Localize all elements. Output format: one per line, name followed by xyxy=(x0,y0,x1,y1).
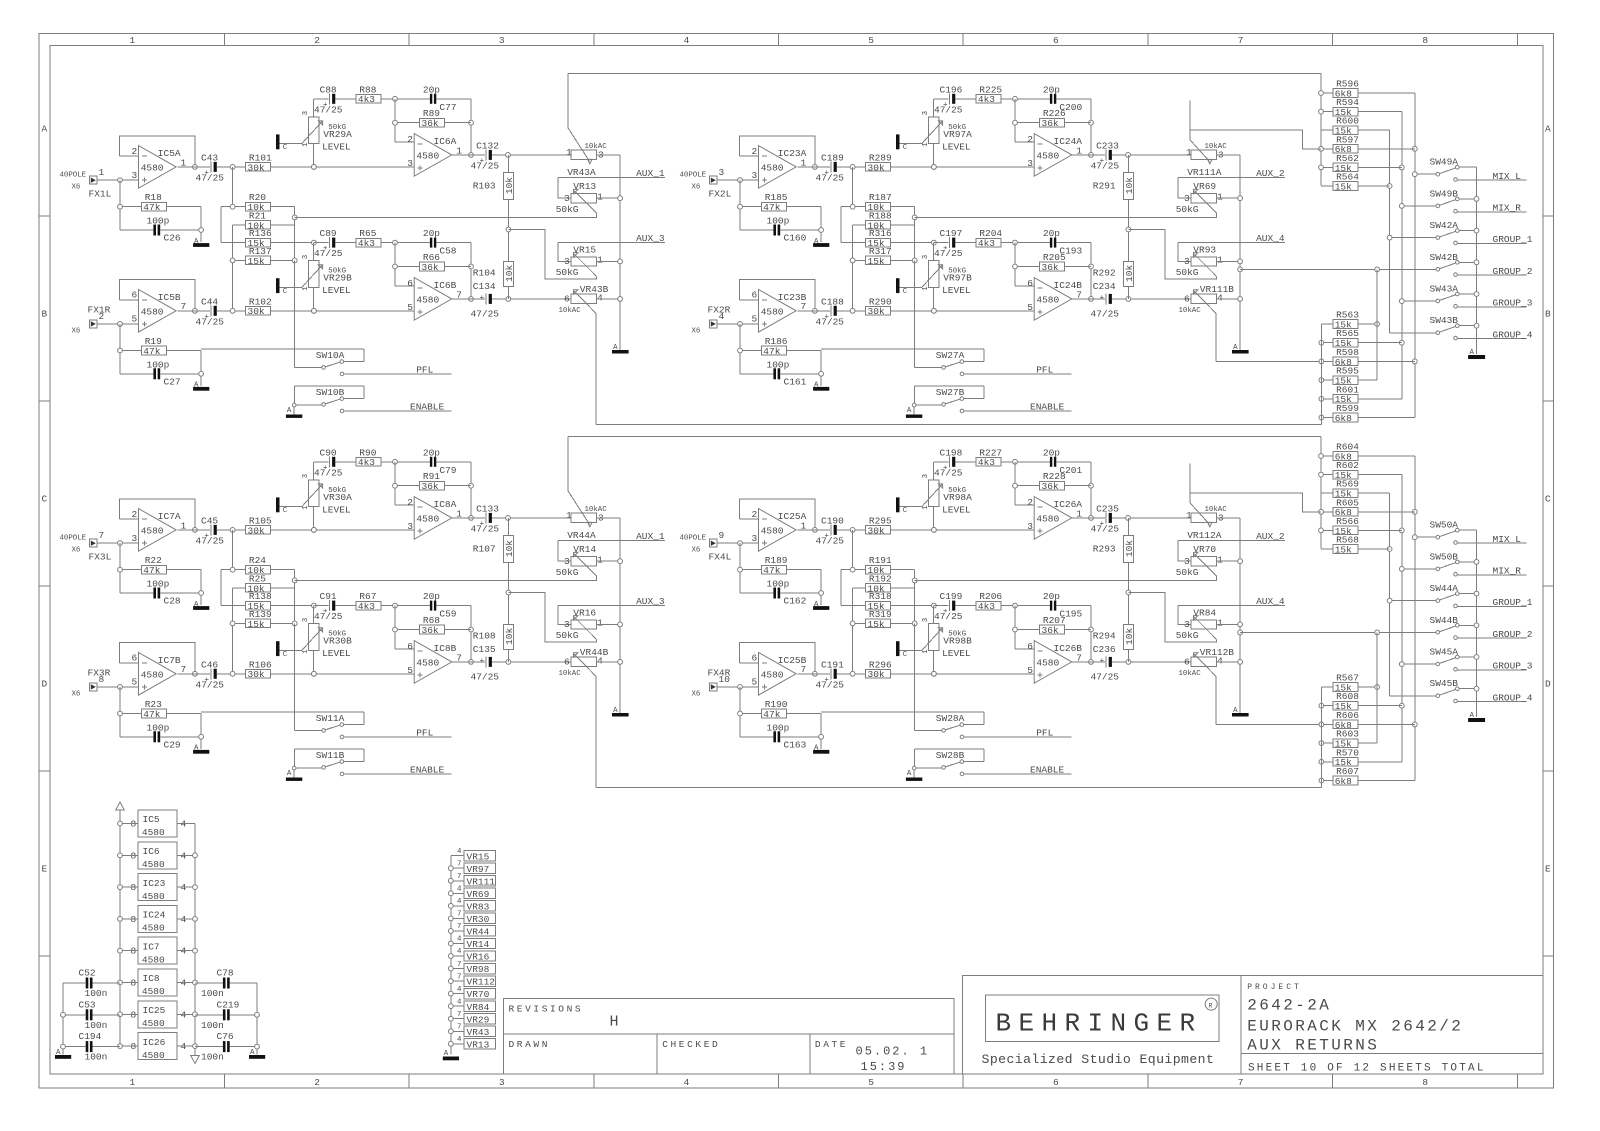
node xyxy=(1089,516,1094,521)
node xyxy=(118,980,123,985)
svg-text:5: 5 xyxy=(752,677,758,688)
node xyxy=(292,215,297,220)
switch SW50B xyxy=(1430,551,1477,570)
svg-text:C: C xyxy=(283,144,288,152)
svg-text:20p: 20p xyxy=(423,591,440,602)
wire xyxy=(200,351,202,386)
wire xyxy=(507,287,509,299)
svg-text:47/25: 47/25 xyxy=(314,248,343,259)
pot supply pin VR112 xyxy=(451,973,496,987)
svg-text:1: 1 xyxy=(922,286,930,291)
wire xyxy=(63,1046,86,1048)
svg-text:IC6A: IC6A xyxy=(434,136,457,147)
svg-text:4: 4 xyxy=(597,292,603,303)
node xyxy=(1238,622,1243,627)
svg-text:C196: C196 xyxy=(940,84,963,95)
wire xyxy=(1072,298,1105,300)
potentiometer VR98B xyxy=(922,618,972,659)
wire aux return tap xyxy=(915,216,1217,218)
wire xyxy=(1358,417,1415,419)
wire xyxy=(233,259,246,261)
svg-text:CHECKED: CHECKED xyxy=(662,1039,720,1050)
node xyxy=(292,578,297,583)
wire xyxy=(1217,260,1241,262)
svg-text:7: 7 xyxy=(457,923,461,931)
op-amp IC26A xyxy=(1027,497,1082,540)
wire mix bus 2 xyxy=(1401,475,1403,762)
wire xyxy=(217,310,246,312)
svg-text:4: 4 xyxy=(457,898,462,906)
svg-text:47/25: 47/25 xyxy=(816,316,845,327)
potentiometer VR97B xyxy=(922,255,972,296)
net label AUX_3 xyxy=(558,596,665,607)
svg-text:10kAC: 10kAC xyxy=(585,506,608,514)
svg-text:+: + xyxy=(480,657,485,665)
svg-text:C: C xyxy=(903,288,908,296)
svg-text:10kAC: 10kAC xyxy=(1179,670,1202,678)
node xyxy=(1319,146,1324,151)
wire xyxy=(280,649,302,651)
svg-text:6: 6 xyxy=(132,290,138,301)
net label AUX_2 xyxy=(1178,168,1285,179)
op-amp IC23B xyxy=(752,290,807,333)
wire xyxy=(492,154,571,156)
svg-text:7: 7 xyxy=(1238,1077,1244,1088)
node xyxy=(932,671,937,676)
resistor R103 xyxy=(473,173,515,200)
wire xyxy=(336,242,357,244)
wire xyxy=(933,650,935,673)
net label AUX_4 xyxy=(1178,596,1285,607)
node xyxy=(506,153,511,158)
svg-text:36k: 36k xyxy=(422,118,439,129)
svg-text:3: 3 xyxy=(407,158,413,169)
svg-text:Specialized Studio Equipment: Specialized Studio Equipment xyxy=(982,1052,1215,1067)
resistor R189 xyxy=(762,555,788,576)
node xyxy=(393,627,398,632)
wire xyxy=(233,224,246,226)
wire xyxy=(837,310,866,312)
svg-text:C91: C91 xyxy=(320,591,337,602)
svg-text:4: 4 xyxy=(457,998,462,1006)
pot supply pin VR83 xyxy=(451,898,496,912)
wire feedback loop IC5A xyxy=(120,136,195,167)
wire xyxy=(313,650,315,673)
svg-text:15:39: 15:39 xyxy=(861,1060,907,1074)
svg-text:D: D xyxy=(1545,679,1551,690)
resistor R296 xyxy=(866,659,892,680)
wire xyxy=(1402,663,1438,665)
node xyxy=(1474,323,1479,328)
wire xyxy=(1014,606,1016,649)
wire xyxy=(1358,148,1415,150)
wire xyxy=(1321,323,1333,325)
svg-text:6: 6 xyxy=(564,293,570,304)
svg-text:3: 3 xyxy=(922,255,930,259)
wire xyxy=(1127,650,1129,662)
svg-text:100n: 100n xyxy=(85,988,108,999)
node xyxy=(1387,235,1392,240)
svg-text:C190: C190 xyxy=(821,515,844,526)
ground xyxy=(1232,707,1249,716)
pot supply pin VR111 xyxy=(451,873,496,887)
svg-text:A: A xyxy=(1545,124,1551,135)
svg-text:10k: 10k xyxy=(504,177,515,194)
svg-text:2: 2 xyxy=(407,134,413,145)
svg-text:C198: C198 xyxy=(940,447,963,458)
capacitor C193 xyxy=(1043,228,1083,257)
svg-text:VR111A: VR111A xyxy=(1187,167,1222,178)
wire xyxy=(1112,517,1191,519)
ground xyxy=(193,387,209,391)
svg-text:R: R xyxy=(1209,1003,1213,1010)
wire bus to mix resistors xyxy=(568,436,1321,438)
svg-text:D: D xyxy=(42,679,48,690)
wire xyxy=(841,605,866,607)
node xyxy=(1238,267,1243,272)
wire xyxy=(1321,511,1333,513)
resistor R318 xyxy=(866,591,892,612)
svg-text:36k: 36k xyxy=(422,262,439,273)
wire xyxy=(63,982,86,984)
node xyxy=(932,603,937,608)
resistor R188 xyxy=(866,210,892,231)
node xyxy=(448,1041,453,1046)
wire mix bus 3 xyxy=(1389,493,1391,696)
wire xyxy=(956,461,977,463)
capacitor C89 xyxy=(314,228,343,259)
wire xyxy=(271,206,295,208)
svg-text:C163: C163 xyxy=(784,739,807,750)
wire xyxy=(837,529,866,531)
node xyxy=(230,204,235,209)
wire xyxy=(232,530,234,570)
svg-text:4580: 4580 xyxy=(761,163,784,174)
svg-text:47/25: 47/25 xyxy=(471,308,500,319)
svg-text:8: 8 xyxy=(99,674,105,685)
wire xyxy=(596,423,1321,425)
svg-text:4580: 4580 xyxy=(141,307,164,318)
wire xyxy=(62,983,64,1055)
svg-text:4580: 4580 xyxy=(142,859,165,870)
capacitor C52 xyxy=(79,968,108,1000)
svg-text:4: 4 xyxy=(457,886,462,894)
resistor R319 xyxy=(866,609,892,630)
wire xyxy=(781,229,822,231)
wire xyxy=(507,650,509,662)
wire xyxy=(445,485,471,487)
wire xyxy=(336,461,357,463)
svg-text:SW11B: SW11B xyxy=(316,750,345,761)
svg-text:4580: 4580 xyxy=(142,986,165,997)
svg-text:4580: 4580 xyxy=(1036,151,1059,162)
svg-text:4580: 4580 xyxy=(416,151,439,162)
svg-text:C45: C45 xyxy=(201,515,218,526)
wire xyxy=(221,206,246,208)
svg-text:47/25: 47/25 xyxy=(934,467,963,478)
svg-text:20p: 20p xyxy=(1043,84,1060,95)
svg-text:X6: X6 xyxy=(72,184,81,192)
wire xyxy=(1190,130,1321,149)
svg-text:47/25: 47/25 xyxy=(1091,160,1120,171)
resistor R138 xyxy=(246,591,272,612)
node xyxy=(312,528,317,533)
connector X6 pin 9 xyxy=(680,530,732,562)
resistor R225 xyxy=(976,84,1002,105)
svg-text:4580: 4580 xyxy=(141,670,164,681)
capacitor C188 xyxy=(816,296,845,327)
svg-text:5: 5 xyxy=(132,314,138,325)
node xyxy=(1013,240,1018,245)
node xyxy=(1412,359,1417,364)
resistor R227 xyxy=(976,447,1002,468)
wire xyxy=(1358,323,1377,325)
svg-text:6: 6 xyxy=(407,641,413,652)
wire xyxy=(120,736,153,738)
node xyxy=(506,516,511,521)
svg-text:E: E xyxy=(1545,864,1551,875)
ground xyxy=(813,750,829,754)
wire xyxy=(280,143,302,145)
svg-text:C219: C219 xyxy=(217,999,240,1010)
svg-text:47k: 47k xyxy=(143,346,160,357)
ground xyxy=(612,707,629,716)
svg-text:C76: C76 xyxy=(217,1031,234,1042)
svg-text:3: 3 xyxy=(302,111,310,115)
capacitor C135 xyxy=(471,644,500,683)
wire input A xyxy=(717,179,759,181)
node xyxy=(1126,297,1131,302)
wire ladder bus xyxy=(294,623,296,730)
wire xyxy=(1072,661,1105,663)
svg-text:REVISIONS: REVISIONS xyxy=(509,1004,584,1015)
node xyxy=(1013,459,1018,464)
svg-text:100p: 100p xyxy=(767,722,790,733)
power rail V+ xyxy=(116,802,125,1047)
wire xyxy=(313,287,315,310)
wire xyxy=(933,287,935,310)
wire xyxy=(314,98,329,100)
ground xyxy=(193,750,209,754)
ground xyxy=(1232,344,1249,353)
wire xyxy=(739,324,741,374)
node xyxy=(912,258,917,263)
switch common bus xyxy=(1476,167,1478,354)
svg-text:C235: C235 xyxy=(1096,503,1119,514)
wire ENABLE xyxy=(960,401,1071,412)
svg-text:FX2L: FX2L xyxy=(709,189,732,200)
node xyxy=(506,590,511,595)
svg-text:100p: 100p xyxy=(147,359,170,370)
node xyxy=(850,621,855,626)
wire xyxy=(739,543,741,593)
wire xyxy=(891,622,915,624)
wire xyxy=(1358,529,1402,531)
wire xyxy=(1321,548,1333,550)
node xyxy=(448,916,453,921)
connector X6 pin 4 xyxy=(692,305,731,336)
wire xyxy=(1015,629,1040,631)
svg-text:VR112: VR112 xyxy=(467,977,496,988)
resistor R563 xyxy=(1333,310,1359,331)
svg-text:10k: 10k xyxy=(1124,628,1135,645)
svg-text:SW43A: SW43A xyxy=(1430,284,1459,295)
wire xyxy=(786,569,821,571)
svg-text:100p: 100p xyxy=(767,579,790,590)
wire xyxy=(280,286,302,288)
wire xyxy=(119,687,121,737)
node xyxy=(448,954,453,959)
wire xyxy=(597,298,621,300)
wire xyxy=(119,324,121,374)
node xyxy=(1474,560,1479,565)
svg-text:100n: 100n xyxy=(201,1020,224,1031)
node xyxy=(312,240,317,245)
wire xyxy=(956,98,977,100)
switch SW45B xyxy=(1430,678,1477,697)
svg-text:PFL: PFL xyxy=(1036,727,1053,738)
node xyxy=(469,297,474,302)
svg-text:47k: 47k xyxy=(763,346,780,357)
ground C xyxy=(276,278,288,296)
node xyxy=(1089,264,1094,269)
wire xyxy=(221,605,246,607)
wire PFL xyxy=(340,364,451,375)
svg-text:30k: 30k xyxy=(248,525,265,536)
wire input B xyxy=(717,686,759,688)
node xyxy=(312,603,317,608)
node xyxy=(1238,559,1243,564)
resistor R600 xyxy=(1333,116,1359,137)
node xyxy=(1319,703,1324,708)
resistor R22 xyxy=(142,555,167,576)
wire xyxy=(798,166,831,168)
svg-text:6: 6 xyxy=(407,278,413,289)
op-amp IC25B xyxy=(752,653,807,696)
wire PFL xyxy=(960,727,1071,738)
wire xyxy=(221,242,246,244)
node xyxy=(393,264,398,269)
IC power pins IC5 xyxy=(120,810,195,838)
wire xyxy=(178,529,211,531)
resistor R291 xyxy=(1093,173,1135,200)
wire xyxy=(1358,185,1390,187)
wire xyxy=(1015,266,1040,268)
ground C xyxy=(276,641,288,659)
wire xyxy=(470,462,472,518)
IC power pins IC7 xyxy=(120,937,195,965)
resistor R597 xyxy=(1333,134,1359,155)
ground C xyxy=(276,134,288,152)
node xyxy=(118,567,123,572)
svg-text:2: 2 xyxy=(752,146,758,157)
wire xyxy=(119,543,121,593)
switch SW49A xyxy=(1430,157,1477,176)
wire xyxy=(740,736,773,738)
wire xyxy=(837,673,866,675)
capacitor C132 xyxy=(471,140,500,171)
svg-text:GROUP_3: GROUP_3 xyxy=(1493,298,1533,309)
wire xyxy=(1127,200,1129,262)
wire xyxy=(395,266,420,268)
node xyxy=(312,308,317,313)
wire xyxy=(933,243,935,261)
wire xyxy=(891,529,1035,531)
wire xyxy=(891,605,934,607)
wire xyxy=(853,224,866,226)
wire xyxy=(1056,242,1091,244)
node xyxy=(1412,535,1417,540)
wire feedback loop IC25B xyxy=(740,643,815,674)
node xyxy=(193,917,198,922)
svg-text:4: 4 xyxy=(457,948,462,956)
node xyxy=(255,1012,260,1017)
wire xyxy=(313,606,315,624)
resistor R20 xyxy=(246,192,271,213)
svg-text:C: C xyxy=(283,651,288,659)
wire xyxy=(781,373,822,375)
svg-text:3: 3 xyxy=(752,533,758,544)
svg-text:47/25: 47/25 xyxy=(1091,523,1120,534)
switch SW44A xyxy=(1430,583,1477,602)
svg-text:5: 5 xyxy=(752,314,758,325)
svg-text:47/25: 47/25 xyxy=(471,523,500,534)
node xyxy=(312,528,317,533)
wire xyxy=(740,350,762,352)
resistor R289 xyxy=(866,152,892,173)
node xyxy=(1387,598,1392,603)
wire xyxy=(314,242,329,244)
svg-text:C89: C89 xyxy=(320,228,337,239)
wire xyxy=(1402,300,1438,302)
resistor R24 xyxy=(246,555,271,576)
svg-text:X6: X6 xyxy=(72,547,81,555)
wire xyxy=(314,461,329,463)
svg-text:3: 3 xyxy=(564,193,570,204)
svg-text:X6: X6 xyxy=(692,327,701,335)
wire xyxy=(597,260,621,262)
wire xyxy=(1090,243,1092,299)
node input A xyxy=(118,541,123,546)
resistor R567 xyxy=(1333,673,1359,694)
svg-text:3: 3 xyxy=(407,521,413,532)
svg-text:SHEET 10 OF 12 SHEETS TOTAL: SHEET 10 OF 12 SHEETS TOTAL xyxy=(1248,1063,1486,1075)
wire xyxy=(294,213,596,217)
node xyxy=(393,483,398,488)
node xyxy=(1412,509,1417,514)
wire ladder bus xyxy=(914,570,916,624)
wire xyxy=(294,576,596,580)
svg-text:SW28B: SW28B xyxy=(936,750,965,761)
wire xyxy=(1358,511,1415,513)
svg-text:PFL: PFL xyxy=(1036,364,1053,375)
node xyxy=(193,853,198,858)
switch SW11A xyxy=(201,712,364,732)
op-amp IC5B xyxy=(132,290,187,333)
node xyxy=(850,671,855,676)
svg-text:4580: 4580 xyxy=(142,954,165,965)
resistor R594 xyxy=(1333,97,1359,118)
wire xyxy=(336,605,357,607)
wire xyxy=(1178,605,1191,624)
resistor R568 xyxy=(1333,535,1359,556)
svg-text:3: 3 xyxy=(132,533,138,544)
svg-text:C188: C188 xyxy=(821,296,844,307)
wire xyxy=(1217,623,1241,625)
node xyxy=(1126,153,1131,158)
wire xyxy=(381,98,430,100)
svg-text:VR29: VR29 xyxy=(467,1014,490,1025)
